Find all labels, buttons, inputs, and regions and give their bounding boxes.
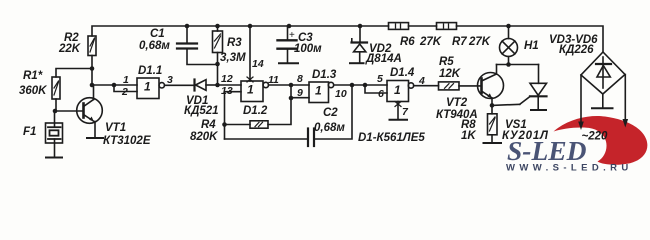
wire D1.3 pin9 [291,97,309,99]
wire top rail [92,26,389,36]
svg-text:КД521: КД521 [184,105,219,117]
lamp H1 [500,26,518,65]
resistor R1 [52,77,60,99]
svg-text:4: 4 [418,75,425,87]
svg-text:+: + [289,30,295,41]
svg-text:H1: H1 [524,40,539,52]
svg-text:27K: 27K [419,36,442,48]
svg-text:F1: F1 [23,126,36,138]
wire R4 right up [268,85,291,125]
wire C2 bottom left [225,138,309,140]
wire R1 bottom to base node [55,99,57,111]
svg-text:100м: 100м [294,43,322,55]
ground VS1 [531,109,546,111]
zener VD2 [352,26,368,63]
gate D1.1 [137,78,165,99]
wire F1 top [54,111,56,127]
svg-text:VT1: VT1 [105,122,126,134]
resistor R4 [250,121,268,128]
svg-text:D1-К561ЛЕ5: D1-К561ЛЕ5 [358,132,425,144]
wire VT2 collector up [496,65,498,75]
svg-text:14: 14 [252,58,264,70]
wire VT2 emitter [491,98,493,114]
resistor R2 [88,36,96,56]
svg-text:10: 10 [335,88,347,100]
svg-text:R4: R4 [201,119,216,131]
resistor R3 [213,26,223,85]
ground bridge [592,107,613,109]
wire base [55,110,84,112]
svg-text:D1.3: D1.3 [312,69,337,81]
junction VT1 base node [53,109,58,114]
thyristor VS1 [520,65,547,110]
wire rail mid [409,25,437,27]
svg-text:3: 3 [167,74,173,86]
svg-text:13: 13 [221,85,233,97]
junction rail R3 [215,24,220,29]
junction pin6 [363,83,368,88]
svg-text:1: 1 [315,84,322,98]
svg-text:9: 9 [297,87,303,99]
logo S-LED [506,116,647,174]
svg-text:0,68м: 0,68м [139,40,170,52]
wire R5 to VT2 base [459,85,482,87]
svg-text:R3: R3 [227,37,242,49]
node 10 [350,83,355,88]
wire R1 top link [56,69,92,78]
resistor R5 [439,82,460,90]
wire D1.4 out to R5 [414,85,439,87]
svg-text:WWW.S-LED.RU: WWW.S-LED.RU [506,163,633,174]
junction rail C3 [287,24,292,29]
svg-text:22K: 22K [58,43,81,55]
svg-text:Д814А: Д814А [365,53,402,65]
svg-text:КТ3102Е: КТ3102Е [103,135,151,147]
junction rail C1 [185,24,190,29]
svg-text:27K: 27K [468,36,491,48]
wire mains right [624,75,626,122]
wire collector rail to VS1 [497,64,539,66]
wire F1 bottom [54,139,56,158]
junction R4-C2 node 13 [222,122,227,127]
transistor VT1 [77,98,103,124]
ground F1 [46,157,62,159]
wire VT1 collector [93,85,95,100]
svg-text:КД226: КД226 [559,44,594,56]
svg-text:360K: 360K [19,85,47,97]
wire VT1 emitter [94,122,96,139]
svg-text:D1.4: D1.4 [390,67,415,79]
wire rail right [457,26,604,52]
svg-text:D1.2: D1.2 [243,105,268,117]
capacitor C3 [278,26,297,63]
junction R1-R2 node [90,66,95,71]
svg-text:6: 6 [378,88,384,100]
svg-text:2: 2 [121,86,128,98]
ground VT1 [87,137,103,139]
svg-text:R5: R5 [439,56,454,68]
svg-text:1: 1 [123,74,129,86]
wire D1.4 pin6 jog [365,85,387,93]
svg-text:D1.1: D1.1 [138,65,162,77]
svg-text:8: 8 [297,73,303,85]
ground VD2 [350,62,364,64]
capacitor C1 [177,26,218,65]
wire D1.2 pin13 [225,92,242,139]
wire C2 right up [314,85,352,139]
wire R4 left [225,124,251,126]
resistor R6 [389,23,409,30]
svg-text:12: 12 [221,73,233,85]
junction H1-VS1 [506,62,511,67]
wire node12 to D1.2 [218,84,242,86]
wire VD1 to node12 [206,84,218,86]
gate D1.4 [387,81,414,102]
wire pin7 [397,102,399,120]
svg-text:R7: R7 [452,36,467,48]
junction C1-R3 [215,62,220,67]
svg-text:~220: ~220 [582,131,609,143]
svg-text:1: 1 [247,83,254,97]
wire mains left [580,75,582,124]
resistor R7 [437,23,457,30]
x mark pin14 [247,77,253,82]
junction D1.1 input node [112,83,117,88]
wire D1.3 out [334,84,387,86]
svg-text:12K: 12K [439,68,461,80]
junction VT1 collector node [90,83,95,88]
node 12 [215,83,220,88]
transistor VT2 [478,73,504,99]
svg-text:1: 1 [394,83,401,97]
diode VD1 [195,80,207,91]
svg-text:R6: R6 [400,36,415,48]
label ~220 [582,131,609,143]
wire R8 bottom [491,135,493,143]
bridge VD3-VD6 [581,52,625,108]
svg-text:820K: 820K [190,131,218,143]
resistor R8 [488,114,498,135]
ground pin7 [390,119,408,121]
junction VT2 emitter [490,103,495,108]
wire emitter to gate [492,104,520,105]
crystal F1 [46,123,63,143]
gate D1.3 [309,82,334,103]
svg-text:11: 11 [268,74,279,86]
wire R2 bottom [91,56,93,86]
wire node to D1.1 inputs [92,84,137,86]
svg-text:S-LED: S-LED [507,135,587,166]
wire D1.1 pin2 jog [114,85,137,92]
svg-text:C1: C1 [150,28,165,40]
wire D1.2 out [269,84,310,86]
svg-text:3,3M: 3,3M [220,52,246,64]
svg-text:R1*: R1* [23,70,43,82]
svg-text:0,68м: 0,68м [314,122,345,134]
junction pin9 [289,96,294,101]
junction rail VD2 [358,24,363,29]
gate D1.2 [241,81,268,102]
wire D1.1 out [165,84,195,86]
node 11 [289,83,294,88]
wire pin14 [249,26,251,81]
ground C3 [279,62,298,64]
svg-text:VT2: VT2 [446,97,468,109]
junction rail H1 [506,24,511,29]
x mark pin7 [395,102,401,107]
svg-text:C2: C2 [323,107,338,119]
svg-text:1: 1 [144,80,151,94]
junction rail pin14 [248,24,253,29]
svg-text:5: 5 [377,73,383,85]
ground R8 [484,142,502,144]
svg-text:1K: 1K [461,130,476,142]
capacitor C2 [308,129,314,147]
